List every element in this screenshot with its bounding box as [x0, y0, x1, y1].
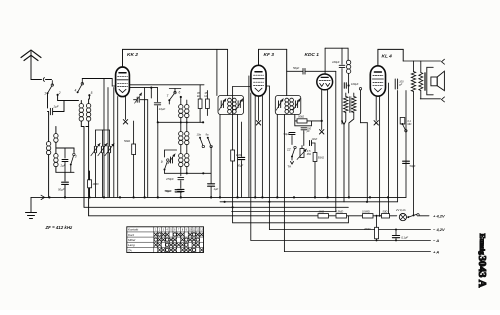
potentiometer 0.5Mohm: [297, 146, 311, 164]
svg-text:200Ω: 200Ω: [363, 227, 371, 231]
wire KF3 grid left: [233, 86, 251, 88]
svg-text:1μF: 1μF: [214, 187, 219, 191]
wire KK2 left pin: [112, 79, 115, 87]
wire padder row: [157, 121, 203, 197]
capacitor 10uF: [151, 88, 165, 123]
variable capacitor osc trimmer: [134, 93, 145, 121]
label KF3: [264, 52, 275, 58]
capacitor 100uF couple: [344, 82, 358, 89]
wire det loop: [295, 117, 312, 126]
wire KK2 anode top: [123, 49, 228, 67]
variable capacitor C2 gang: [98, 130, 107, 197]
loudspeaker: [427, 67, 445, 95]
wire trafo join: [341, 113, 346, 202]
wire IF2 bottom left: [276, 115, 278, 198]
switch 12: [287, 146, 296, 157]
svg-text:7: 7: [167, 94, 169, 98]
svg-text:100μF: 100μF: [332, 60, 340, 64]
wire KF3 left pin: [249, 76, 251, 197]
resistor 0.5Mohm rail b: [362, 201, 373, 218]
node x KL4: [374, 121, 378, 125]
wire KDC1 pins: [322, 89, 328, 197]
wire KF3 pin b: [261, 96, 263, 197]
svg-text:50μF: 50μF: [165, 189, 172, 193]
capacitor 50uF left: [58, 182, 68, 197]
wire screen feed: [107, 88, 109, 198]
svg-text:+ A: + A: [433, 249, 439, 254]
label KK2: [127, 52, 138, 58]
svg-text:10μF: 10μF: [159, 107, 166, 111]
label 3043 A: [476, 256, 488, 288]
wire tube pin down: [117, 97, 119, 198]
switch 7: [167, 91, 177, 104]
wire osc v2: [145, 100, 148, 198]
tube KL4: [370, 66, 385, 96]
resistor 45kohm b: [205, 91, 210, 116]
svg-text:Mittel: Mittel: [128, 238, 136, 242]
wire KL4 pins: [385, 83, 388, 216]
wire rail 216: [89, 214, 415, 216]
resistor 1Mohm rail: [318, 209, 329, 218]
resistor 50kohm af: [313, 153, 324, 198]
svg-text:KF 3: KF 3: [264, 52, 275, 58]
coil L2: [86, 99, 90, 127]
wire KDC1 anode: [325, 48, 348, 74]
svg-text:TA: TA: [128, 248, 132, 252]
node 6: [169, 85, 182, 105]
wire 9a down: [210, 147, 212, 174]
antenna: [21, 50, 41, 80]
wire det mid: [292, 133, 304, 146]
switch 3: [70, 153, 77, 165]
wire trap bottom: [56, 165, 74, 182]
node feed: [150, 87, 152, 99]
resistor 50kohm det: [295, 115, 312, 124]
svg-text:1: 1: [44, 92, 46, 96]
capacitor 50uF af: [284, 126, 296, 145]
wire speaker top: [403, 59, 444, 64]
wire trafo secondary down: [349, 113, 354, 197]
capacitor 50uF bus: [165, 187, 182, 197]
wire KL4 anode: [378, 49, 403, 65]
switch position table: [127, 227, 204, 253]
svg-text:− A: − A: [433, 238, 439, 243]
wire 284 filament: [283, 115, 285, 252]
svg-text:MΩ: MΩ: [307, 152, 311, 156]
coil L4: [54, 127, 58, 154]
label KDC1: [305, 52, 320, 58]
svg-text:Lang: Lang: [128, 243, 135, 247]
wire IF1 bottom right: [237, 115, 239, 198]
tube KK2: [116, 67, 130, 97]
capacitor 200pF: [301, 126, 312, 133]
wire KF3 grid cap: [258, 96, 260, 120]
node 2: [57, 91, 65, 100]
svg-text:2μF: 2μF: [60, 164, 66, 168]
resistor 1Mohm: [88, 171, 100, 197]
svg-text:50pF: 50pF: [293, 66, 299, 70]
wire osc feed a: [113, 88, 115, 198]
svg-text:1MΩ: 1MΩ: [319, 209, 325, 213]
wire to band switch: [64, 100, 79, 102]
label Eumig: [478, 234, 487, 256]
capacitor 100uF anode: [332, 48, 345, 124]
wire rail plusA: [284, 240, 439, 254]
svg-text:KL 4: KL 4: [382, 54, 393, 60]
wire KDC1 switch line: [335, 71, 337, 211]
wire filament rail left: [86, 127, 89, 216]
wire KF3 pin a: [254, 96, 256, 197]
coil osc L7: [185, 100, 189, 123]
svg-text:50kΩ: 50kΩ: [298, 115, 304, 119]
svg-text:KK 2: KK 2: [127, 52, 138, 58]
capacitor 2uF: [50, 101, 64, 115]
capacitor 50pF: [287, 66, 336, 74]
svg-text:3: 3: [75, 155, 77, 159]
svg-text:50kΩ: 50kΩ: [124, 139, 130, 143]
tube KF3: [251, 65, 266, 96]
coil osc L10: [179, 154, 183, 174]
capacitor trap 2uF: [60, 148, 69, 172]
svg-text:10a: 10a: [197, 132, 202, 136]
capacitor 50uF grid: [237, 122, 245, 197]
wire KK2 grid cap: [125, 97, 127, 120]
svg-text:50μF: 50μF: [58, 188, 65, 192]
terminal TA: [288, 157, 294, 169]
switch contact 4: [75, 79, 84, 94]
variable capacitor C1 gang: [91, 130, 100, 197]
svg-text:50Ω: 50Ω: [383, 209, 388, 213]
svg-text:− 4,2V: − 4,2V: [433, 227, 445, 232]
svg-text:1MΩ: 1MΩ: [93, 182, 100, 186]
svg-text:100μF: 100μF: [351, 82, 359, 86]
resistor 0.5Mohm rail a: [336, 209, 347, 218]
coil L5: [54, 154, 58, 173]
terminal plus42: [433, 214, 445, 219]
wire main bus: [31, 91, 406, 200]
wire IF1 feeds: [217, 49, 228, 95]
wire 204 down: [203, 85, 205, 91]
capacitor 50uF out: [403, 132, 416, 168]
capacitor 100pF out: [395, 78, 404, 89]
wire speaker bottom: [420, 97, 444, 102]
lamp 2V 0.1A: [395, 208, 407, 221]
wire rail 207: [84, 206, 348, 208]
resistor 45kohm a: [197, 85, 202, 123]
wire top band rail: [82, 78, 112, 80]
svg-text:0,5MΩ: 0,5MΩ: [336, 209, 344, 213]
IF transformer 2: [275, 96, 301, 115]
node 5: [88, 91, 92, 99]
coil osc L11: [185, 154, 189, 174]
node x KF3: [256, 121, 260, 125]
svg-text:Eumig: Eumig: [478, 234, 487, 256]
switch tone: [400, 91, 411, 133]
svg-text:+ 4,2V: + 4,2V: [433, 214, 445, 219]
transformer AF secondary: [349, 93, 356, 113]
coil osc L6: [179, 105, 183, 124]
svg-text:MΩ: MΩ: [408, 123, 412, 126]
resistor 1Mohm grid: [231, 87, 242, 223]
svg-text:KDC 1: KDC 1: [305, 52, 320, 58]
svg-text:2V 0,1A: 2V 0,1A: [395, 208, 406, 212]
coil osc L9: [185, 123, 189, 153]
capacitor 0.1uF bias: [392, 230, 408, 241]
wire osc v1: [144, 88, 146, 198]
svg-text:0,1μF: 0,1μF: [401, 235, 408, 239]
wire antenna lead-in: [31, 78, 52, 82]
bus junction dots: [48, 196, 389, 198]
coil L3: [46, 112, 50, 198]
svg-text:470pF: 470pF: [166, 177, 174, 181]
wire rail minusA: [251, 238, 439, 243]
svg-text:Kurz: Kurz: [128, 233, 135, 237]
transformer AF primary: [344, 93, 349, 113]
coil L1: [79, 101, 83, 127]
wire KL4 cathode: [379, 96, 381, 216]
svg-text:2: 2: [58, 91, 61, 95]
svg-text:3043 A: 3043 A: [476, 256, 488, 288]
svg-text:1MΩ: 1MΩ: [236, 153, 242, 157]
wire det to KDC1 grid: [312, 120, 323, 122]
wire rail minus42: [269, 202, 445, 232]
coil AF choke: [346, 60, 350, 93]
wire KL4 grid cap: [375, 96, 377, 120]
svg-text:10nF: 10nF: [312, 138, 318, 141]
wire rail 202: [220, 197, 398, 203]
svg-text:9: 9: [161, 160, 163, 164]
switch contact 1: [44, 81, 53, 96]
svg-text:pF: pF: [398, 84, 402, 87]
wire gang top: [96, 129, 110, 131]
switch battery: [407, 214, 433, 219]
variable capacitor padder: [165, 150, 177, 173]
wire KF3 right pin: [266, 86, 269, 202]
wire sw down: [202, 121, 204, 173]
capacitor 10nF: [304, 138, 318, 153]
svg-text:2μF: 2μF: [53, 105, 59, 109]
resistor 200ohm: [363, 216, 379, 241]
capacitor 50uF osc: [166, 189, 185, 198]
svg-text:12: 12: [287, 148, 291, 152]
switch 9: [161, 159, 169, 171]
label KL4: [382, 54, 393, 60]
wire speaker links: [428, 64, 430, 99]
switch 9a: [206, 132, 213, 147]
resistor tone: [411, 61, 415, 215]
wire KK2 right pins: [129, 85, 204, 88]
wire contact1 down: [48, 93, 49, 111]
wire IF2 bottom right: [294, 115, 296, 118]
wire KF3 anode: [259, 49, 287, 95]
wire output L: [359, 88, 367, 202]
label ZF frequency: [45, 225, 74, 230]
wire IF1 bottom left: [219, 115, 221, 198]
tube KDC1: [317, 74, 333, 90]
switch 10a: [197, 132, 205, 147]
IF transformer 1: [218, 96, 244, 115]
variable capacitor C3 gang: [105, 130, 114, 197]
svg-text:ZF = 412 kHz: ZF = 412 kHz: [45, 225, 74, 230]
wire 397 down: [397, 91, 399, 202]
wire rail 223: [233, 207, 349, 223]
resistor 50ohm rail: [382, 209, 390, 218]
wire KF3 cath: [250, 93, 252, 240]
node x KK2: [123, 120, 127, 124]
node x KDC1 grid: [320, 130, 324, 134]
wire choke top link: [347, 59, 350, 61]
capacitor 1uF det: [208, 173, 219, 197]
wire AVC rail left: [81, 127, 84, 208]
svg-text:5: 5: [91, 91, 93, 95]
svg-text:50kΩ: 50kΩ: [318, 156, 324, 160]
svg-text:4: 4: [75, 89, 77, 93]
capacitor 470pF: [166, 177, 184, 188]
svg-text:0,5MΩ: 0,5MΩ: [362, 209, 370, 213]
svg-text:pF: pF: [306, 130, 310, 133]
coil osc L8: [179, 123, 183, 153]
svg-text:50μF: 50μF: [237, 164, 243, 168]
ground: [26, 197, 37, 218]
svg-text:Kontakt: Kontakt: [128, 228, 138, 232]
wire trap top: [56, 148, 74, 153]
transformer output: [419, 61, 426, 99]
wire padder bottom: [165, 172, 212, 176]
resistor 50kohm osc: [124, 121, 136, 197]
svg-text:TA: TA: [288, 165, 292, 169]
svg-text:6: 6: [179, 91, 181, 95]
wire grid feed: [103, 79, 105, 198]
wire rail 212: [232, 211, 336, 213]
svg-text:50μF: 50μF: [410, 164, 416, 168]
